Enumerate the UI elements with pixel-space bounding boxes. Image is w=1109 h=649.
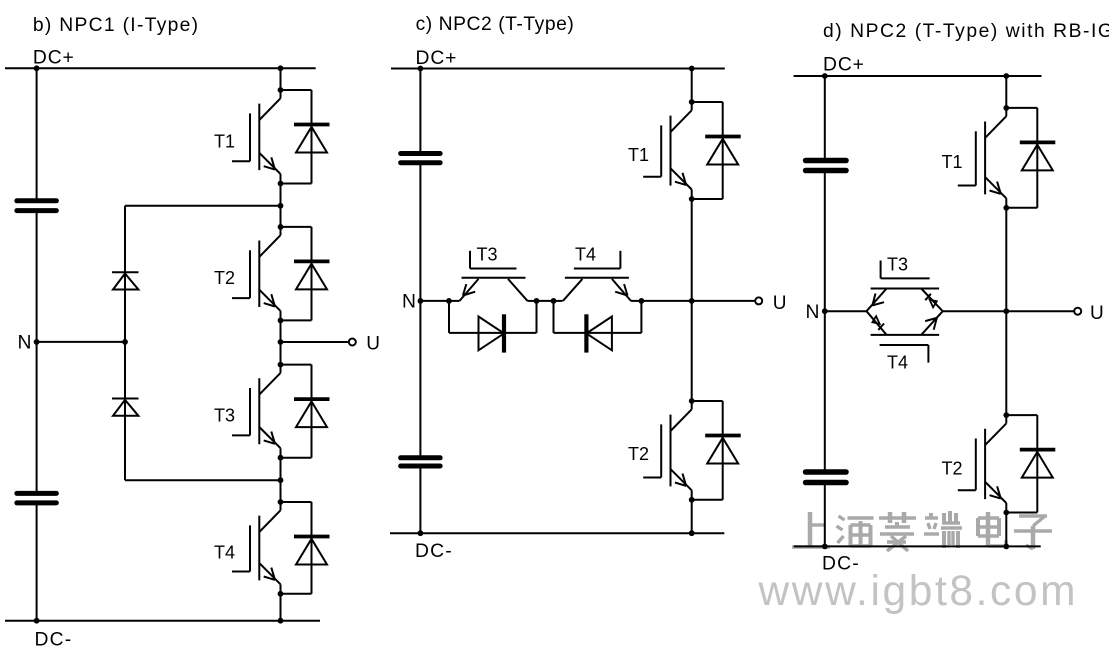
diode D4 freewheel (b) <box>281 502 330 594</box>
svg-text:T4: T4 <box>575 245 596 265</box>
wire N segment 3 (c) <box>641 300 691 302</box>
svg-text:T4: T4 <box>214 542 235 562</box>
capacitor C3 (c top) <box>401 154 441 163</box>
wire N segment 1 (d) <box>825 310 867 312</box>
junction N/clamp (b) <box>122 339 128 345</box>
junction DC+/leg (c) <box>689 66 695 72</box>
svg-text:T1: T1 <box>942 152 963 172</box>
svg-text:DC-: DC- <box>415 541 453 562</box>
wire DC+ rail (c) <box>391 68 725 70</box>
label T3 (d) <box>887 255 908 275</box>
diode D7 antiparallel T3 (c) <box>449 301 537 353</box>
junction clamp bottom/leg (b) <box>278 477 284 483</box>
capacitor C2 (b bottom) <box>17 493 57 503</box>
svg-text:T3: T3 <box>477 245 498 265</box>
junction N/left rail (b) <box>34 339 40 345</box>
terminal U (c) <box>755 297 762 304</box>
label T3 (b) <box>214 406 235 426</box>
label DC+ (d) <box>823 55 865 76</box>
junction DC-/left rail (b) <box>34 618 40 624</box>
transistor T3 (b) <box>232 362 283 461</box>
junction DC-/left rail (d) <box>822 544 828 550</box>
wire DC+ rail (d) <box>794 75 1042 77</box>
capacitor C5 (d top) <box>806 161 847 171</box>
label T2 (b) <box>214 268 235 288</box>
svg-text:N: N <box>402 292 416 313</box>
transistor T1 (d) <box>958 105 1009 211</box>
label T3 (c) <box>477 245 498 265</box>
junction DC-/leg (b) <box>278 618 284 624</box>
wire leg segments (c) <box>691 69 693 534</box>
diode D2 freewheel (d) <box>1006 415 1055 512</box>
label DC- (c) <box>415 541 453 562</box>
svg-text:DC-: DC- <box>822 553 860 574</box>
svg-text:T3: T3 <box>214 406 235 426</box>
svg-text:T2: T2 <box>942 458 963 478</box>
label DC+ (c) <box>416 48 458 69</box>
wire clamp vertical (b) <box>124 206 126 480</box>
diode D1 freewheel (c) <box>692 102 741 199</box>
svg-text:DC+: DC+ <box>416 48 458 69</box>
diode D2 freewheel (b) <box>281 227 330 321</box>
diode D8 antiparallel T4 (c) <box>554 301 642 353</box>
label T2 (d) <box>942 458 963 478</box>
svg-text:www.igbt8.com: www.igbt8.com <box>758 568 1079 615</box>
svg-text:DC+: DC+ <box>33 47 75 68</box>
wire leg segments (d) <box>1005 76 1007 546</box>
transistor T4 (b) <box>232 499 283 597</box>
junction DC+/leg (d) <box>1003 73 1009 79</box>
diode D1 freewheel (b) <box>281 90 330 184</box>
diode D1 freewheel (d) <box>1006 108 1055 208</box>
wire U output (b) <box>281 341 349 343</box>
diode D3 freewheel (b) <box>281 365 330 458</box>
label U (c) <box>773 293 787 314</box>
svg-text:N: N <box>806 302 820 323</box>
svg-text:DC-: DC- <box>35 630 73 649</box>
transistor T2 (c) <box>643 398 694 503</box>
label DC- (b) <box>35 630 73 649</box>
diode D2 freewheel (c) <box>692 401 741 500</box>
transistor T4 RB-IGBT (d) <box>867 311 943 362</box>
svg-text:T1: T1 <box>214 131 235 151</box>
svg-text:T1: T1 <box>628 145 649 165</box>
label N (d) <box>806 302 820 323</box>
junction DC+/left rail (b) <box>34 65 40 71</box>
svg-text:T4: T4 <box>887 353 908 373</box>
wire U output (d) <box>1006 310 1073 312</box>
title b) NPC1 (I-Type) <box>33 15 200 36</box>
svg-text:U: U <box>366 334 380 355</box>
wire DC+ rail (b) <box>5 67 316 69</box>
label N (b) <box>18 333 32 354</box>
wire leg segments (b) <box>280 68 282 620</box>
label DC- (d) <box>822 553 860 574</box>
transistor T2 (d) <box>958 412 1009 515</box>
wire N segment 1 (c) <box>420 300 449 302</box>
label U (b) <box>366 334 380 355</box>
svg-text:T3: T3 <box>887 255 908 275</box>
svg-text:d) NPC2 (T-Type) with RB-IGBT: d) NPC2 (T-Type) with RB-IGBT <box>823 21 1109 42</box>
svg-text:T2: T2 <box>214 268 235 288</box>
wire left rail (b) <box>36 68 38 620</box>
svg-text:DC+: DC+ <box>823 55 865 76</box>
transistor T1 (b) <box>232 87 283 186</box>
wire clamp bottom (b) <box>125 479 281 481</box>
label U (d) <box>1090 303 1104 324</box>
svg-text:U: U <box>1090 303 1104 324</box>
title d) NPC2 (T-Type) with RB-IGBT <box>823 21 1109 42</box>
transistor T1 (c) <box>643 99 694 202</box>
junction U/leg (b) <box>278 339 284 345</box>
label T4 (c) <box>575 245 596 265</box>
wire DC- rail (c) <box>390 532 724 534</box>
label T4 (d) <box>887 353 908 373</box>
svg-text:N: N <box>18 333 32 354</box>
wire clamp top (b) <box>125 205 281 207</box>
junction DC-/left rail (c) <box>418 530 424 536</box>
transistor T3 RB-IGBT (d) <box>867 261 943 312</box>
wire left rail (c) <box>419 69 421 534</box>
transistor T4 (c) <box>551 251 645 304</box>
watermark 上海菱端电子 <box>792 511 1054 553</box>
diode D6 lower clamp (b) <box>112 399 139 416</box>
capacitor C1 (b top) <box>17 201 57 211</box>
svg-text:c) NPC2 (T-Type): c) NPC2 (T-Type) <box>416 14 575 35</box>
label T1 (b) <box>214 131 235 151</box>
wire N (b) <box>37 341 125 343</box>
label DC+ (b) <box>33 47 75 68</box>
wire N segment 2 (d) <box>943 310 1007 312</box>
junction N/left rail (c) <box>418 298 424 304</box>
junction DC+/leg (b) <box>278 65 284 71</box>
junction N/leg (d) <box>1003 308 1009 314</box>
junction DC+/left rail (c) <box>418 66 424 72</box>
junction DC-/leg (c) <box>689 530 695 536</box>
label T1 (d) <box>942 152 963 172</box>
terminal U (d) <box>1074 308 1081 315</box>
label T1 (c) <box>628 145 649 165</box>
diode D5 upper clamp (b) <box>112 272 139 289</box>
capacitor C6 (d bottom) <box>806 472 847 483</box>
junction DC-/leg (d) <box>1003 544 1009 550</box>
label T2 (c) <box>628 444 649 464</box>
label N (c) <box>402 292 416 313</box>
transistor T3 (c) <box>446 251 539 304</box>
label T4 (b) <box>214 542 235 562</box>
transistor T2 (b) <box>232 224 283 323</box>
junction DC+/left rail (d) <box>822 73 828 79</box>
wire U output (c) <box>692 300 755 302</box>
wire DC- rail (d) <box>794 545 1041 547</box>
svg-text:b) NPC1 (I-Type): b) NPC1 (I-Type) <box>33 15 200 36</box>
junction clamp top/leg (b) <box>278 203 284 209</box>
junction N/left rail (d) <box>822 308 828 314</box>
svg-text:T2: T2 <box>628 444 649 464</box>
svg-text:U: U <box>773 293 787 314</box>
junction N/leg (c) <box>689 298 695 304</box>
title c) NPC2 (T-Type) <box>416 14 575 35</box>
wire DC- rail (b) <box>5 620 320 622</box>
wire left rail (d) <box>824 76 826 546</box>
wire N segment 2 (c) <box>537 300 554 302</box>
terminal U (b) <box>349 339 356 346</box>
capacitor C4 (c bottom) <box>401 458 441 466</box>
watermark www.igbt8.com <box>758 568 1081 618</box>
